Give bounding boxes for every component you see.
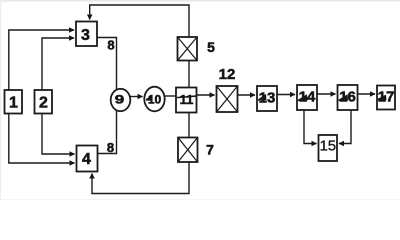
svg-text:13: 13 — [259, 90, 276, 107]
svg-text:11: 11 — [180, 92, 194, 107]
svg-text:8: 8 — [107, 140, 114, 155]
svg-text:14: 14 — [299, 89, 316, 106]
svg-text:12: 12 — [219, 66, 236, 83]
svg-text:8: 8 — [107, 38, 114, 53]
svg-text:15: 15 — [319, 138, 336, 155]
svg-text:10: 10 — [148, 93, 162, 107]
svg-text:9: 9 — [115, 93, 125, 107]
svg-text:5: 5 — [207, 39, 215, 55]
svg-text:17: 17 — [378, 89, 395, 106]
svg-text:7: 7 — [206, 142, 214, 158]
svg-text:3: 3 — [81, 27, 90, 44]
svg-text:16: 16 — [339, 89, 356, 106]
svg-text:2: 2 — [39, 95, 48, 112]
svg-text:4: 4 — [82, 151, 91, 168]
svg-text:1: 1 — [9, 95, 18, 112]
